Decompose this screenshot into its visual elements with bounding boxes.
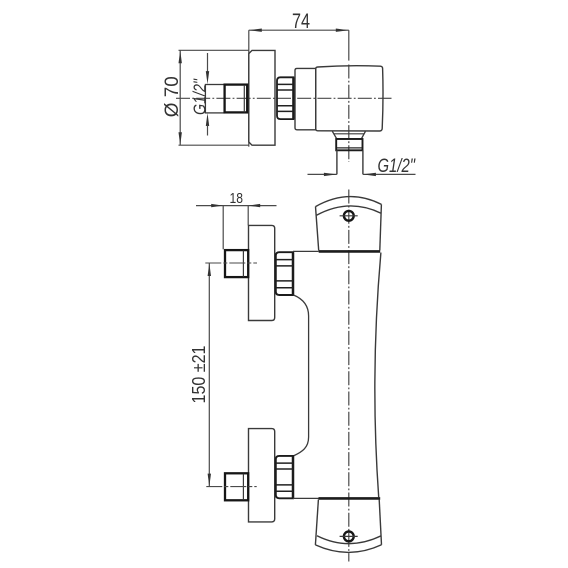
union nut (top view) xyxy=(225,85,248,113)
svg-text:18: 18 xyxy=(230,190,244,207)
bottom nut centerline xyxy=(206,486,256,488)
top union nut (lower view) xyxy=(225,250,248,277)
svg-text:G1/2": G1/2" xyxy=(190,78,210,115)
valve main body (top view) xyxy=(316,66,383,131)
svg-text:G1/2": G1/2" xyxy=(378,156,416,177)
bottom union nut (lower view) xyxy=(225,473,248,500)
bottom knurled nut (lower view) xyxy=(276,456,293,498)
valve body section A (top view) xyxy=(295,68,316,129)
svg-text:74: 74 xyxy=(292,10,310,33)
dimension 18 line xyxy=(196,205,277,207)
vertical centerline top view xyxy=(348,30,350,60)
outlet pipe (top view) xyxy=(337,150,363,174)
body S-curve profile (lower view) xyxy=(294,295,309,456)
thread stub G1/2 (top view) xyxy=(205,85,224,113)
knurled nut (top view) xyxy=(277,77,293,119)
dimension O70 extension lines xyxy=(179,49,250,51)
outlet nut (top view) xyxy=(336,139,362,150)
svg-text:150 ±21: 150 ±21 xyxy=(189,346,209,404)
bar right edge xyxy=(375,253,381,498)
horizontal centerline top view xyxy=(176,97,392,99)
bar top cap (lower view) xyxy=(316,197,382,207)
top screw xyxy=(344,211,354,221)
vertical centerline lower view xyxy=(348,190,350,562)
dimension 150+-21 line xyxy=(208,263,210,487)
dimension G1/2 bottom line xyxy=(308,173,416,175)
dimension 18 extension lines xyxy=(222,206,224,250)
top wall flange (lower view) xyxy=(249,225,275,320)
wall flange (top view) xyxy=(249,50,275,145)
top joint line xyxy=(293,250,319,252)
dimension 74 line xyxy=(249,29,349,31)
extension line left of 74 / flange left edge xyxy=(248,30,250,147)
top nut centerline xyxy=(205,262,257,264)
svg-text:Ø 70: Ø 70 xyxy=(162,76,183,117)
dimension O70 line xyxy=(179,50,181,145)
bottom wall flange (lower view) xyxy=(249,429,275,522)
top knurled nut (lower view) xyxy=(276,252,293,295)
bottom joint line xyxy=(293,497,319,499)
outlet chamfer (top view) xyxy=(332,131,365,138)
dimension G1/2 arrows (top view left) xyxy=(207,53,209,72)
bar bottom cap (lower view) xyxy=(315,500,318,545)
bottom screw xyxy=(344,532,354,542)
